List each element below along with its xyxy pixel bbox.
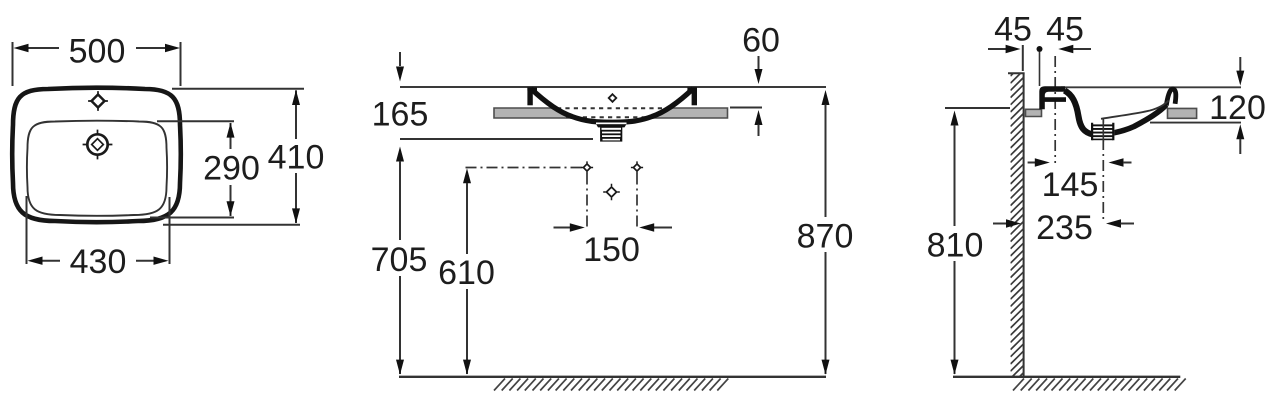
svg-text:430: 430	[70, 243, 127, 281]
svg-text:165: 165	[372, 95, 429, 133]
svg-text:145: 145	[1042, 166, 1099, 204]
svg-text:120: 120	[1209, 89, 1266, 127]
svg-text:870: 870	[797, 217, 854, 255]
svg-text:60: 60	[742, 21, 780, 59]
svg-text:45: 45	[994, 10, 1032, 48]
svg-text:290: 290	[203, 149, 260, 187]
svg-text:610: 610	[438, 254, 495, 292]
svg-text:45: 45	[1046, 10, 1084, 48]
svg-text:235: 235	[1036, 209, 1093, 247]
svg-text:500: 500	[69, 32, 126, 70]
svg-text:705: 705	[371, 241, 428, 279]
svg-text:410: 410	[268, 139, 325, 177]
svg-text:810: 810	[927, 226, 984, 264]
svg-text:150: 150	[583, 231, 640, 269]
